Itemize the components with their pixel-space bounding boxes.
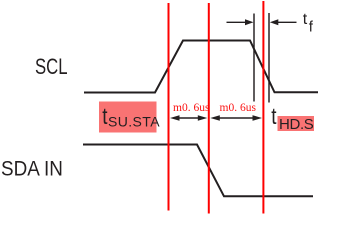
- label t HD.S: [271, 104, 313, 133]
- marker line A (tf left boundary): [253, 14, 255, 102]
- tf arrow left (pointing right): [227, 19, 254, 25]
- svg-text:t: t: [102, 104, 107, 129]
- SDA waveform: [83, 145, 313, 197]
- svg-text:HD.S: HD.S: [279, 116, 314, 133]
- svg-text:SCL: SCL: [35, 55, 68, 80]
- SCL waveform: [84, 41, 318, 93]
- svg-text:SDA IN: SDA IN: [1, 158, 63, 181]
- svg-text:t: t: [303, 11, 308, 28]
- red cursor line 3: [262, 1, 264, 214]
- tf arrow right (pointing left): [270, 19, 297, 25]
- label tf: [303, 11, 314, 36]
- dimension arrow 2 (between red line 2 and 3): [210, 115, 262, 121]
- svg-text:t: t: [271, 104, 276, 129]
- red cursor line 1: [168, 3, 170, 211]
- marker line B (tf right boundary): [268, 13, 270, 103]
- svg-text:SU.STA: SU.STA: [108, 114, 160, 130]
- red cursor line 2: [208, 3, 210, 214]
- highlight box t_HD.S: [278, 116, 315, 131]
- svg-text:m0. 6us: m0. 6us: [173, 102, 210, 114]
- highlight box t_SU.STA: [99, 102, 157, 133]
- dimension arrow 1 (between red line 1 and 2): [170, 115, 207, 121]
- label t SU.STA: [102, 104, 160, 129]
- svg-text:m0. 6us: m0. 6us: [220, 102, 257, 114]
